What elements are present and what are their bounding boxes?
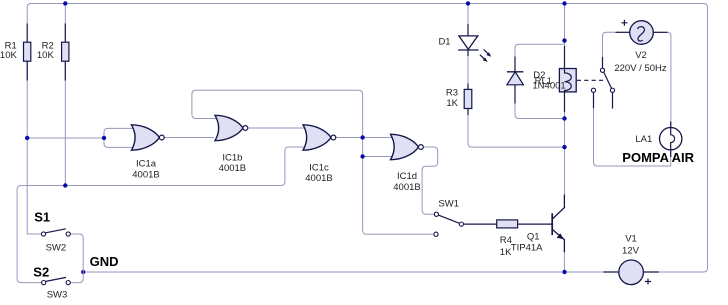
NOR gate IC1c bbox=[303, 125, 336, 150]
resistor R4 bbox=[497, 220, 518, 228]
wire IC1c output to node A bbox=[336, 137, 363, 139]
transistor Q1 bbox=[552, 195, 564, 253]
switch blade V2 bbox=[604, 72, 612, 88]
svg-text:S1: S1 bbox=[34, 209, 50, 224]
svg-text:4001B: 4001B bbox=[219, 163, 246, 174]
wire switch throw down to lamp bottom bbox=[594, 92, 671, 166]
wire node A to IC1d upper input bbox=[363, 137, 393, 139]
resistor R2 bbox=[62, 24, 69, 81]
junction node D2 bottom bbox=[562, 116, 566, 120]
svg-text:1N4001: 1N4001 bbox=[532, 81, 565, 92]
wire relay dashed link bbox=[577, 79, 603, 81]
svg-text:IC1b: IC1b bbox=[222, 152, 242, 163]
svg-text:IC1a: IC1a bbox=[136, 158, 157, 169]
source V2 bbox=[616, 20, 668, 45]
svg-text:220V / 50Hz: 220V / 50Hz bbox=[614, 63, 667, 74]
wire IC1b output to IC1c input bbox=[248, 127, 306, 129]
wire main relay branch vertical bbox=[564, 4, 566, 195]
wire node B down to SW1 lower throw bbox=[363, 157, 433, 235]
diode D2 bbox=[507, 57, 524, 104]
wire V2 right lead down to lamp bbox=[653, 32, 671, 127]
wire node R2 riser to IC1c lower input bbox=[281, 147, 306, 186]
svg-text:S2: S2 bbox=[33, 265, 49, 280]
wire R1 bottom to node row bbox=[26, 61, 28, 138]
svg-text:10K: 10K bbox=[37, 50, 55, 61]
NOR gate IC1b bbox=[215, 115, 248, 140]
source V1 bbox=[603, 260, 658, 285]
LED D1 bbox=[458, 24, 491, 62]
switch contact V2 throw right stub bbox=[610, 88, 614, 108]
junction node collector R3 bbox=[562, 145, 566, 149]
wire SW3 right up to GND junction bbox=[70, 272, 83, 283]
junction node emitter rail bbox=[562, 270, 566, 274]
svg-text:Q1: Q1 bbox=[527, 231, 540, 242]
wire R2 bottom to node bbox=[64, 61, 66, 185]
junction node D2 top bbox=[562, 38, 566, 42]
svg-text:SW2: SW2 bbox=[46, 242, 67, 253]
junction node relay rail bbox=[562, 1, 566, 5]
wire node B to IC1d lower input bbox=[363, 156, 393, 158]
svg-text:D1: D1 bbox=[438, 36, 450, 47]
wire Q1 emitter to bottom rail bbox=[563, 240, 565, 272]
wire R2 top to rail bbox=[64, 4, 66, 43]
svg-text:12V: 12V bbox=[622, 246, 640, 257]
resistor R3 bbox=[464, 84, 472, 116]
svg-text:POMPA AIR: POMPA AIR bbox=[622, 150, 694, 165]
svg-text:V2: V2 bbox=[635, 50, 647, 61]
junction node R1 row bbox=[25, 136, 29, 140]
svg-text:LA1: LA1 bbox=[635, 134, 652, 145]
svg-text:SW3: SW3 bbox=[47, 289, 68, 300]
wire IC1d output to SW1 upper throw bbox=[422, 147, 438, 214]
wire LED cathode to R3 bbox=[467, 50, 469, 89]
wire node A down to node B bbox=[362, 138, 364, 157]
svg-text:IC1c: IC1c bbox=[309, 162, 329, 173]
wire node R1 down to SW2 bbox=[27, 138, 41, 234]
wire SW2 right to GND junction bbox=[70, 234, 83, 272]
wire feedback IC1c output to IC1b input bbox=[192, 90, 363, 137]
switch contact V2 pole bbox=[600, 57, 604, 72]
wire D2 bypass loop bbox=[515, 44, 565, 118]
switch SW2 bbox=[41, 229, 70, 236]
svg-text:GND: GND bbox=[90, 254, 119, 269]
lamp LA1 bbox=[660, 122, 682, 158]
switch SW1 bbox=[434, 212, 464, 236]
svg-text:R3: R3 bbox=[446, 88, 458, 99]
relay RL1 bbox=[559, 46, 576, 112]
svg-text:4001B: 4001B bbox=[393, 182, 420, 193]
NOR gate IC1d bbox=[391, 134, 424, 159]
junction node B bbox=[360, 154, 364, 158]
junction node R2 row bbox=[63, 183, 67, 187]
svg-text:1K: 1K bbox=[446, 98, 458, 109]
wire node R2 left branch down to SW3 bbox=[17, 186, 281, 283]
wire R3 bottom to collector node bbox=[468, 109, 565, 148]
junction node A bbox=[360, 135, 364, 139]
svg-text:IC1d: IC1d bbox=[397, 171, 417, 182]
svg-text:TIP41A: TIP41A bbox=[511, 242, 543, 253]
resistor R1 bbox=[24, 24, 31, 81]
wire node R1 to IC1a inputs bbox=[27, 137, 104, 139]
wire IC1a output to IC1b input bbox=[164, 137, 214, 139]
svg-text:10K: 10K bbox=[0, 50, 17, 61]
junction node LED rail bbox=[466, 1, 470, 5]
wire V2 left lead to switch pole bbox=[603, 32, 630, 68]
switch SW3 bbox=[42, 277, 71, 284]
junction node R1 rail bbox=[63, 1, 67, 5]
NOR gate IC1a bbox=[131, 125, 164, 150]
svg-text:SW1: SW1 bbox=[438, 199, 459, 210]
wire SW1 pole to R4 to Q1 base bbox=[464, 223, 552, 225]
switch contact V2 throw left bbox=[591, 88, 595, 108]
svg-text:4001B: 4001B bbox=[132, 170, 159, 181]
svg-text:4001B: 4001B bbox=[305, 173, 332, 184]
wire IC1a input loop bbox=[104, 128, 137, 147]
junction node IC1a input bbox=[102, 136, 106, 140]
wire LED branch from top rail bbox=[467, 4, 469, 36]
svg-text:V1: V1 bbox=[625, 233, 637, 244]
junction node GND bbox=[81, 270, 85, 274]
